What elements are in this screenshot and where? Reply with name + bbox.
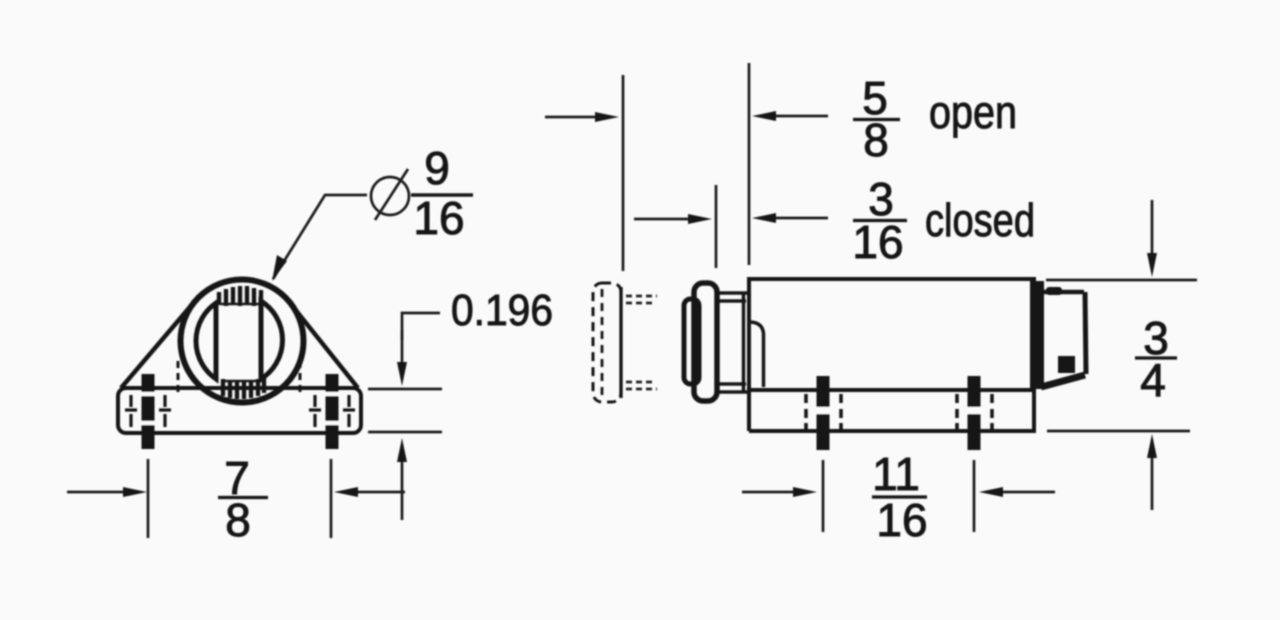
- boss circle: [181, 280, 304, 403]
- knurl ticks bottom: [223, 377, 264, 399]
- 0.196 extension lines: [368, 388, 442, 391]
- svg-text:16: 16: [852, 216, 903, 268]
- svg-text:8: 8: [225, 494, 251, 546]
- screw right (front view): [309, 374, 355, 449]
- right crescent (plunger edge): [261, 301, 283, 379]
- bracket flange: [118, 388, 361, 433]
- ext line open position: [622, 75, 625, 271]
- svg-text:open: open: [929, 86, 1017, 138]
- end cap right edge: [1085, 292, 1086, 374]
- ext line closed position: [715, 185, 718, 268]
- shaft collar: [742, 292, 746, 393]
- right slant side: [290, 303, 358, 388]
- right arrow: [999, 491, 1055, 494]
- shaft bottom lines: [716, 390, 750, 394]
- svg-text:16: 16: [876, 494, 927, 546]
- svg-text:4: 4: [1140, 354, 1166, 406]
- hidden dashes upper right of plate: [626, 296, 657, 389]
- hidden line left of circle: [177, 361, 180, 393]
- 7/8 left arrow: [67, 491, 128, 494]
- latch body: [749, 279, 1034, 390]
- screw right (side view): [957, 376, 992, 450]
- body left edge down to flange: [747, 390, 751, 431]
- left slant side: [121, 301, 195, 388]
- shaft top lines: [716, 291, 750, 295]
- dim 0.196 bracket: [402, 313, 440, 340]
- mounting flange (side view): [749, 390, 1034, 431]
- hidden line right of circle: [299, 361, 302, 393]
- body inner tab: [751, 322, 764, 387]
- 7/8 extension lines: [147, 459, 150, 538]
- ext lines: [822, 460, 825, 532]
- 5/8 left arrow: [545, 116, 600, 119]
- 0.196 down arrow: [401, 330, 404, 366]
- svg-text:0.196: 0.196: [451, 286, 553, 335]
- knurl smear bottom: [224, 380, 266, 383]
- plunger tip cap: [684, 299, 699, 384]
- strike plate inner hidden line: [601, 289, 604, 396]
- 3/16 left arrow: [634, 218, 693, 221]
- svg-text:11: 11: [872, 448, 920, 500]
- down arrow: [1151, 200, 1154, 258]
- leader line for diameter: [273, 195, 367, 279]
- body right edge thick: [1030, 281, 1044, 389]
- ext line bottom: [1047, 430, 1190, 433]
- left arrow: [742, 491, 798, 494]
- leader arrowhead: [272, 255, 287, 281]
- 3/16 right arrow: [772, 217, 828, 220]
- 5/8 right arrow: [772, 115, 828, 118]
- end cap top: [1044, 290, 1084, 295]
- svg-text:8: 8: [863, 114, 889, 166]
- ext line top: [1046, 279, 1197, 282]
- screw left (front view): [125, 374, 171, 449]
- svg-text:9: 9: [424, 142, 450, 194]
- end cap step: [1058, 356, 1075, 373]
- svg-text:closed: closed: [925, 194, 1035, 246]
- 0.196 up arrow: [401, 462, 404, 520]
- knurl smear top: [220, 303, 262, 306]
- knurl ticks top: [219, 286, 261, 306]
- end cap bottom: [1041, 375, 1085, 387]
- 7/8 right arrow: [355, 491, 405, 494]
- screw left (side view): [806, 376, 841, 450]
- svg-text:16: 16: [413, 192, 464, 244]
- ext line body front: [748, 63, 751, 265]
- up arrow: [1151, 452, 1154, 510]
- strike plate (phantom): [593, 283, 621, 402]
- strike plate solid edge: [619, 287, 622, 398]
- diameter symbol: [371, 177, 409, 215]
- plunger button: [694, 283, 717, 401]
- left crescent (plunger edge): [196, 303, 216, 379]
